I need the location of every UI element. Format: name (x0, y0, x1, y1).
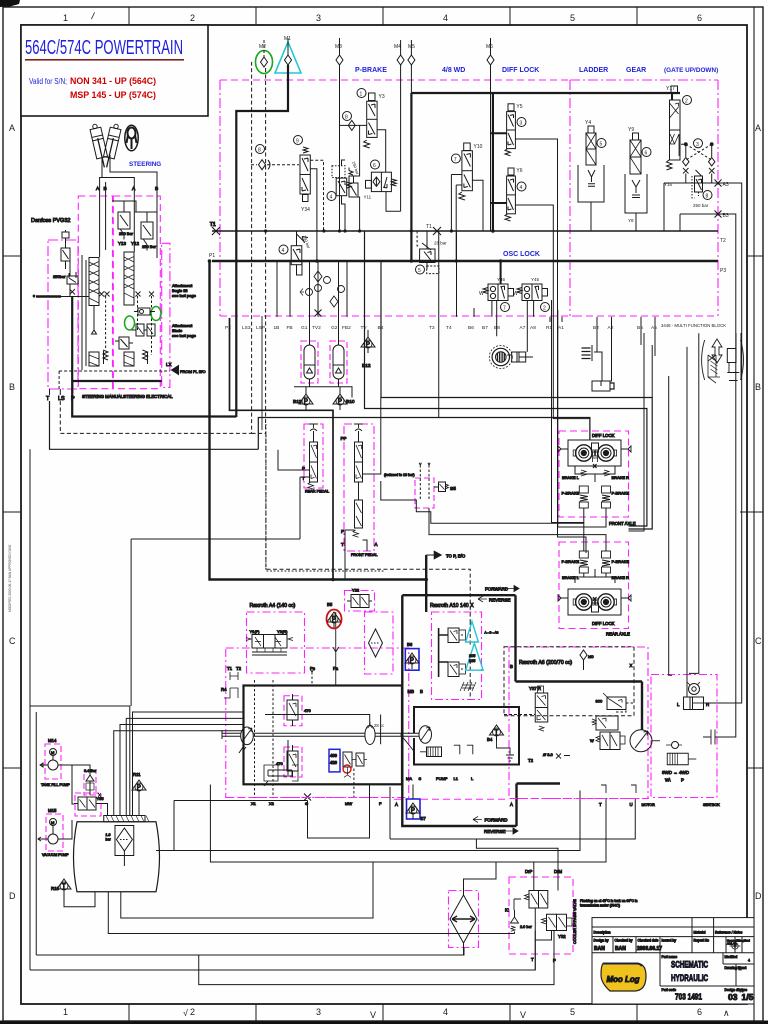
A4 bottom labels (406, 776, 474, 781)
svg-text:B2: B2 (593, 325, 599, 331)
svg-text:W: W (479, 291, 484, 297)
svg-text:NON 341 - UP (564C): NON 341 - UP (564C) (70, 76, 156, 87)
dotted box around pedals (266, 424, 385, 571)
relief pair right (343, 752, 367, 798)
svg-text:T4: T4 (446, 325, 452, 331)
svg-text:R4: R4 (221, 687, 227, 692)
svg-text:M: M (51, 820, 54, 825)
svg-text:MOTOR: MOTOR (642, 803, 656, 807)
svg-text:T: T (599, 802, 602, 807)
svg-text:see last page: see last page (172, 293, 197, 298)
reducer 28bar on trunks (416, 231, 448, 274)
svg-text:4: 4 (330, 195, 333, 201)
svg-text:FORWARD: FORWARD (485, 818, 509, 823)
svg-text:205: 205 (469, 654, 475, 658)
svg-text:03: 03 (728, 992, 738, 1002)
470 valve lower (276, 745, 298, 777)
valve Y6 (505, 168, 526, 221)
svg-text:8: 8 (345, 115, 348, 121)
electrical section solenoid pair (131, 324, 155, 336)
svg-text:STEERING MANUAL: STEERING MANUAL (82, 394, 124, 399)
svg-text:2.0 bar: 2.0 bar (520, 925, 533, 929)
svg-text:L1: L1 (454, 776, 459, 781)
svg-text:B: B (9, 382, 15, 392)
svg-text:6: 6 (373, 163, 376, 169)
twin pressure reducers 250bar (327, 160, 361, 231)
valve Y11 pressure reducer (364, 160, 397, 200)
R10 gauge (51, 879, 95, 907)
svg-text:7: 7 (454, 157, 457, 163)
diff lock outputs to axles (515, 139, 586, 553)
svg-text:K:: K: (505, 908, 509, 913)
svg-text:TO P, E/O: TO P, E/O (446, 554, 466, 559)
S5 box (415, 478, 434, 508)
svg-text:2: 2 (685, 99, 688, 105)
wheel brake right (595, 445, 616, 461)
springs under brakes (581, 470, 609, 476)
small shuttle glyphs (134, 308, 155, 315)
M5 port (408, 40, 415, 93)
svg-text:8: 8 (258, 148, 261, 154)
svg-text:P: P (553, 958, 556, 963)
svg-text:M14: M14 (48, 738, 57, 743)
steering electrical box (113, 196, 160, 389)
svg-text:BAN: BAN (594, 946, 605, 952)
svg-text:W: W (513, 291, 518, 297)
svg-text:Checked by: Checked by (615, 939, 633, 943)
svg-text:T2: T2 (528, 758, 534, 763)
svg-text:B13: B13 (293, 399, 302, 405)
second reducer small (349, 125, 360, 231)
svg-text:M15: M15 (48, 808, 57, 813)
svg-text:Part code: Part code (662, 988, 677, 992)
svg-text:U: U (630, 802, 633, 807)
shuttle block (592, 716, 618, 730)
svg-text:R10: R10 (51, 886, 59, 891)
svg-text:S5: S5 (450, 486, 456, 492)
accumulator G2 (333, 345, 344, 379)
M2 dashed riser (265, 68, 267, 433)
Y34 output to P trunk (310, 169, 317, 261)
svg-text:5: 5 (418, 268, 421, 274)
0.4bar valve box (84, 771, 96, 795)
svg-text:Sheet: Sheet (738, 966, 747, 970)
svg-text:M0: M0 (588, 654, 594, 659)
svg-text:C: C (755, 636, 762, 646)
svg-text:X: X (630, 663, 633, 668)
LX arrow (172, 366, 179, 375)
svg-text:1: 1 (63, 13, 68, 23)
svg-text:Valid for S/N;: Valid for S/N; (29, 77, 67, 86)
svg-text:Y32: Y32 (558, 934, 566, 939)
svg-text:4: 4 (748, 959, 750, 963)
svg-text:FORWARD: FORWARD (485, 587, 509, 592)
flush valve W (590, 732, 625, 750)
svg-text:Y34: Y34 (301, 207, 310, 213)
svg-text:2: 2 (190, 13, 195, 23)
300 valve (596, 693, 635, 712)
svg-text:3: 3 (696, 142, 699, 148)
svg-text:703 1491: 703 1491 (675, 993, 702, 1002)
svg-text:235: 235 (469, 659, 475, 663)
filter B5 box (365, 612, 394, 674)
svg-text:6: 6 (697, 1007, 702, 1017)
svg-text:B: B (755, 382, 761, 392)
B4 gauge (487, 725, 534, 763)
svg-text:X1: X1 (251, 801, 257, 806)
shock valve 250bar A (112, 201, 136, 240)
gear box below (625, 174, 647, 213)
svg-text:Checked date: Checked date (638, 939, 659, 943)
svg-text:TV: TV (361, 325, 368, 331)
svg-text:SCHEMATIC: SCHEMATIC (671, 960, 708, 970)
ladder box (578, 165, 604, 202)
title underline (25, 59, 184, 61)
long line B4 to front axle y397 (381, 261, 652, 529)
right margin strip line (753, 7, 755, 1021)
B7 blue gauge under pump (406, 785, 426, 822)
svg-text:T3: T3 (429, 325, 435, 331)
tank filler strainer (104, 816, 149, 822)
A3 B3 lines to right verticals (707, 183, 742, 737)
svg-text:P: P (71, 396, 75, 402)
seatbox box (651, 675, 717, 798)
svg-text:250 bar: 250 bar (693, 203, 709, 208)
svg-text:3448 - MULTI FUNCTION BLOCK: 3448 - MULTI FUNCTION BLOCK (661, 323, 726, 328)
svg-text:FROM PL E/O: FROM PL E/O (180, 369, 206, 374)
svg-text:transmission motor (564C): transmission motor (564C) (580, 904, 620, 908)
B zone gear lines (736, 333, 741, 380)
svg-text:1: 1 (63, 1007, 68, 1017)
svg-text:4/8 WD: 4/8 WD (442, 67, 465, 74)
steering wheel (125, 125, 138, 151)
M1 heavy line down (236, 65, 288, 417)
svg-text:BAN: BAN (615, 946, 626, 952)
line T-return y417.5 (258, 418, 590, 450)
G port line (308, 785, 370, 839)
svg-text:P-BRAKE: P-BRAKE (562, 559, 580, 564)
svg-text:Part name: Part name (662, 955, 678, 959)
svg-text:(GATE UP/DOWN): (GATE UP/DOWN) (664, 67, 718, 74)
projection symbol (730, 941, 741, 952)
bottom zone ticks (128, 1004, 130, 1021)
OSC risers (492, 301, 534, 352)
return filter in tank (106, 826, 134, 867)
svg-text:Y8: Y8 (628, 218, 634, 223)
rear pedal valve (308, 424, 318, 489)
svg-text:A5: A5 (651, 325, 657, 331)
svg-text:Modified: Modified (725, 955, 738, 959)
svg-text:250 bar: 250 bar (302, 235, 312, 250)
capacitor drain symbol (703, 730, 723, 745)
front pedal box (344, 424, 374, 551)
svg-text:TV2: TV2 (312, 325, 321, 331)
upper valve (505, 891, 548, 913)
svg-text:FRONT AXLE: FRONT AXLE (609, 521, 636, 526)
svg-text:9: 9 (296, 139, 299, 145)
470 valve upper (287, 694, 311, 726)
svg-text:250bar: 250bar (53, 274, 66, 279)
svg-text:564C/574C POWERTRAIN: 564C/574C POWERTRAIN (25, 37, 183, 59)
zone numbers top (63, 11, 702, 23)
corner scan mark top-left (0, 0, 20, 7)
400/420 blue box (329, 749, 340, 772)
svg-text:B12: B12 (362, 363, 371, 369)
svg-text:T2: T2 (236, 666, 242, 671)
T line from steering (50, 401, 259, 449)
P-brake supply heavy line (411, 92, 680, 94)
p-brake cylinders top (579, 551, 588, 573)
svg-text:M: M (51, 750, 54, 755)
svg-text:V: V (520, 1010, 526, 1020)
svg-text:D: D (755, 891, 762, 901)
vacuum pump box (46, 814, 63, 851)
shaft line (222, 730, 241, 739)
svg-text:MSP 145 - UP (574C): MSP 145 - UP (574C) (70, 90, 156, 101)
svg-text:P: P (681, 778, 684, 783)
svg-text:Y22: Y22 (352, 588, 360, 593)
svg-text:Y12: Y12 (131, 241, 140, 246)
return plumbing nested lines (30, 449, 130, 970)
svg-text:4: 4 (443, 13, 448, 23)
axle housing (568, 440, 621, 466)
svg-text:see last page: see last page (172, 333, 197, 338)
block heavy outline (244, 686, 403, 785)
svg-text:TANK FILL PUMP: TANK FILL PUMP (41, 783, 70, 787)
brake line manifold (575, 466, 615, 482)
svg-text:T: T (341, 542, 344, 547)
filter diamond (369, 629, 383, 657)
svg-text:LS: LS (58, 396, 65, 402)
svg-text:Moo Log: Moo Log (607, 975, 640, 984)
M4 port (394, 40, 404, 211)
svg-text:P-BRAKE: P-BRAKE (612, 559, 630, 564)
svg-text:B: B (510, 664, 513, 669)
check valve 2.0 bar (511, 910, 533, 934)
gate crossing lines (686, 144, 712, 160)
svg-text:6: 6 (645, 151, 648, 157)
M3 port (335, 38, 343, 231)
vacuum pump M15 (38, 808, 72, 857)
case drain elbows (454, 745, 473, 754)
bottom port labels (251, 801, 382, 806)
servo piston (264, 740, 298, 786)
svg-text:(reduced to 10 bar): (reduced to 10 bar) (384, 473, 415, 477)
svg-text:W\: W\ (665, 778, 671, 783)
Y3 output down to Y11 (377, 130, 386, 172)
manual spool lower hatch (89, 352, 99, 366)
svg-text:1/5: 1/5 (742, 992, 754, 1002)
svg-text:D: D (9, 891, 16, 901)
B5 A5 long lines (629, 333, 656, 531)
left 250bar relief (53, 232, 70, 279)
accumulator G1 (304, 345, 315, 379)
svg-text:Rexroth A10 140 X: Rexroth A10 140 X (430, 603, 474, 609)
heavy steering block P line x209.5 (210, 261, 386, 580)
svg-text:B4: B4 (378, 325, 384, 331)
svg-text:Y11: Y11 (364, 195, 372, 200)
0.4 bar check (84, 769, 97, 795)
rear pedal box (304, 424, 323, 488)
M6 port (486, 38, 494, 231)
valve Y10 (451, 143, 482, 200)
svg-text:Y5: Y5 (516, 104, 522, 110)
svg-text:Y13: Y13 (118, 241, 127, 246)
svg-text:400: 400 (330, 753, 338, 758)
svg-text:L: L (471, 776, 474, 781)
Y22 valve (347, 588, 372, 608)
P1 trunk heavy (212, 260, 718, 263)
svg-text:4: 4 (443, 1007, 448, 1017)
electrical steering spool (124, 252, 134, 305)
svg-text:A→B→AB: A→B→AB (485, 631, 499, 635)
cyan triangles (466, 621, 479, 642)
accumulator G1 box (301, 341, 318, 383)
svg-text:P3: P3 (720, 268, 726, 274)
svg-text:4: 4 (520, 185, 523, 191)
svg-text:FRONT PEDAL: FRONT PEDAL (351, 553, 378, 557)
LS relief block (115, 337, 133, 349)
svg-text:Description: Description (594, 931, 611, 935)
pump circle (239, 727, 253, 753)
svg-text:G2: G2 (331, 325, 338, 331)
heavy work lines (402, 595, 642, 729)
steering cylinder right (101, 123, 122, 169)
bottom spring stacks (104, 351, 148, 364)
svg-text:∧: ∧ (723, 1008, 730, 1018)
steering block inner heavy bottom (72, 380, 162, 382)
heavy supply vertical (492, 93, 494, 231)
accumulator G2 box (330, 341, 347, 383)
svg-text:28 cc: 28 cc (374, 723, 385, 728)
valve Y37 (529, 686, 548, 731)
green solenoid ellipses (125, 316, 135, 330)
svg-text:Issued by: Issued by (662, 939, 677, 943)
rear axle box (559, 542, 629, 629)
svg-text:T1: T1 (210, 222, 216, 228)
side zone ticks (3, 255, 21, 257)
valve Y34 (294, 136, 311, 214)
svg-text:REVERSE: REVERSE (489, 598, 511, 603)
staircase to rear axle (381, 481, 584, 551)
svg-text:REAR AXLE: REAR AXLE (606, 632, 630, 637)
svg-text:bar: bar (106, 838, 112, 842)
svg-text:DIFF LOCK: DIFF LOCK (502, 67, 539, 74)
internal feed lines (61, 230, 89, 297)
relief 250bar on trunks (279, 231, 312, 275)
cooler bypass valve box (509, 877, 573, 954)
gauge B12 (361, 337, 375, 353)
svg-text:2: 2 (543, 306, 546, 312)
svg-text:T: T (531, 957, 534, 962)
svg-text:Y3: Y3 (379, 94, 385, 100)
check diamond to Y3 (340, 124, 367, 126)
boost pump (265, 715, 385, 745)
svg-text:MW: MW (345, 801, 352, 806)
svg-text:DrP: DrP (525, 869, 533, 874)
svg-text:LS3: LS3 (242, 325, 251, 331)
zone numbers bottom (63, 1007, 730, 1020)
svg-text:BRAKE R: BRAKE R (612, 475, 630, 480)
svg-text:MODIFIED 2003-06-17 BAN APPROV: MODIFIED 2003-06-17 BAN APPROVED DWG (8, 544, 12, 612)
svg-text:T2: T2 (720, 238, 726, 244)
svg-text:P-BRAKE: P-BRAKE (612, 491, 630, 496)
svg-text:H: H (706, 702, 709, 707)
svg-text:MA: MA (406, 776, 412, 781)
svg-text:T1: T1 (426, 224, 432, 230)
svg-text:DIFF LOCK: DIFF LOCK (592, 621, 615, 626)
svg-text:A8: A8 (530, 325, 536, 331)
front pedal connections (345, 398, 381, 552)
svg-text:L: L (677, 702, 680, 707)
svg-text:1B: 1B (274, 325, 280, 331)
svg-text:GEAR: GEAR (626, 67, 646, 74)
svg-text:Flushing on at 45°C in tank on: Flushing on at 45°C in tank on 60°C in (580, 899, 638, 903)
tank fill pump M14 (40, 738, 70, 787)
svg-text:P: P (341, 529, 344, 534)
svg-text:5: 5 (570, 1007, 575, 1017)
svg-text:Y45: Y45 (531, 277, 540, 282)
shuttle diamonds (683, 158, 715, 166)
A10 pump circle (419, 726, 432, 744)
dashed boundary box (504, 647, 634, 716)
svg-text:A7: A7 (520, 325, 526, 331)
B2 A2 lines to muffler (597, 345, 612, 386)
svg-text:A1: A1 (558, 325, 564, 331)
solenoid valve upper (439, 628, 466, 677)
svg-text:Report No: Report No (694, 939, 710, 943)
valve Y35 (74, 793, 104, 810)
P2 heavy down from port to x333 (230, 318, 334, 580)
svg-text:Y2(R): Y2(R) (277, 629, 288, 634)
LSP thin riser (261, 316, 263, 430)
svg-text:Y9: Y9 (628, 127, 634, 133)
orbital unit (687, 682, 700, 695)
dashed pilot verticals (94, 296, 152, 355)
M2 port (256, 40, 273, 74)
A3 B3 ports (664, 183, 718, 231)
junction dots (208, 229, 503, 581)
front pedal valve (353, 424, 363, 537)
svg-text:B10: B10 (346, 399, 355, 405)
svg-text:M2: M2 (259, 44, 266, 50)
manifold (575, 569, 615, 583)
spring bottom (460, 682, 476, 691)
svg-text:LSP: LSP (256, 325, 265, 331)
svg-text:250 Bar: 250 Bar (142, 244, 157, 249)
svg-text:5: 5 (570, 13, 575, 23)
svg-text:28 bar: 28 bar (434, 241, 447, 246)
svg-text:3: 3 (520, 121, 523, 127)
valve Y45 (513, 277, 550, 312)
cylinder 8wd (677, 697, 709, 710)
B6 gauge blue (405, 642, 419, 670)
svg-text:B7: B7 (482, 325, 488, 331)
valve Y46 (479, 277, 514, 312)
heavy Y3 supply vertical (410, 93, 412, 261)
svg-text:MB: MB (408, 689, 415, 694)
X closed marks (99, 292, 154, 297)
steering block bottom heavy (72, 296, 236, 417)
P riser (50, 381, 73, 395)
axle housing (568, 589, 621, 615)
pedal return to tank (131, 539, 300, 706)
LS dashed to pump (252, 433, 471, 621)
svg-text:DIFF LOCK: DIFF LOCK (592, 433, 615, 438)
R11 gauge (132, 772, 146, 816)
svg-text:250 Bar: 250 Bar (119, 231, 134, 236)
magenta bottom dashed (227, 797, 393, 799)
